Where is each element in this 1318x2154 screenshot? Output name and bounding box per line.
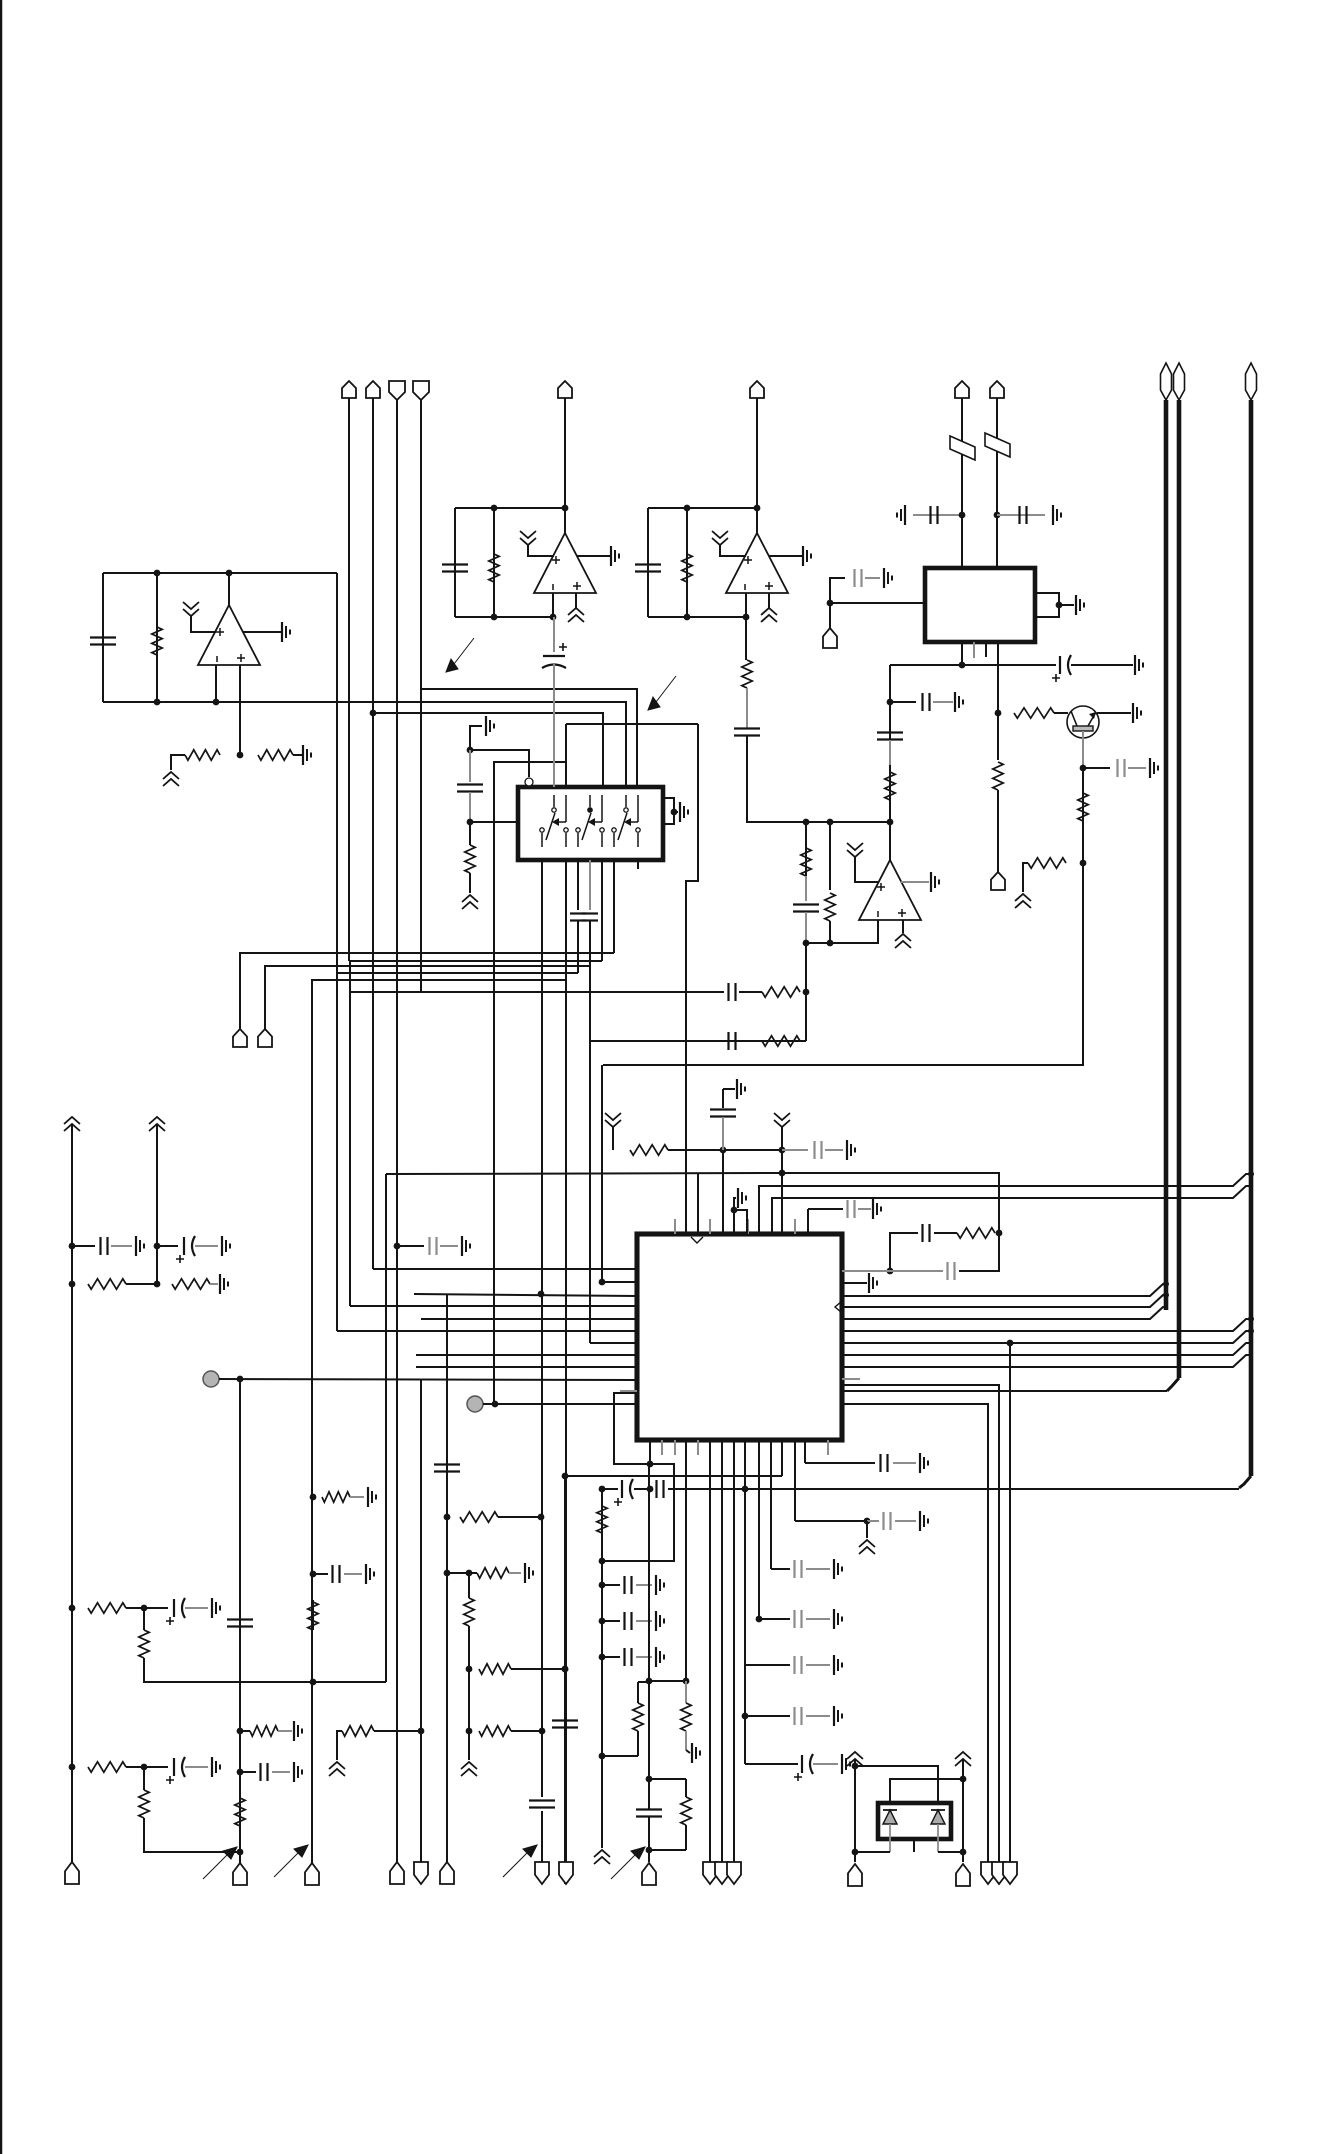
V+ supply arrow U1 [183, 602, 199, 616]
D1 top net [855, 1766, 938, 1803]
U2 supply wire [528, 545, 554, 556]
U7 bottom pin b3 [674, 1440, 676, 1455]
ground C38 [842, 1754, 850, 1774]
terminal J3 wire [396, 400, 398, 1862]
page left edge line [0, 0, 2, 2154]
U7 left pin wire col602 [602, 1065, 637, 1282]
resistor R4 [489, 554, 499, 582]
node D2a [960, 1776, 967, 1783]
node col542 a [539, 1728, 546, 1735]
R3 right wire [293, 754, 303, 756]
node bus3 ret a [742, 1486, 749, 1493]
capacitor C13 [457, 785, 483, 792]
node col602 f [599, 1618, 606, 1625]
supply arrow col602 [594, 1850, 610, 1864]
capacitor C19 [101, 1237, 108, 1255]
U6 pin cap wire p4 [589, 860, 591, 910]
bottom terminal BT12 [727, 1862, 741, 1884]
U7 pin1 mark [691, 1237, 703, 1243]
terminal J7 wire [961, 398, 963, 568]
node A2 [731, 1207, 738, 1214]
node CL2 [310, 1571, 317, 1578]
capacitor C27 [657, 1480, 664, 1498]
R24 leads [685, 1779, 687, 1797]
C48 gnd wire [440, 1245, 458, 1247]
bottom terminal BT13 [848, 1864, 862, 1886]
resistor R31 [322, 1492, 350, 1502]
R30 leads [239, 1798, 241, 1826]
capacitor C43 [261, 1763, 268, 1781]
C19 wire [72, 1245, 95, 1247]
diode pack box [878, 1803, 951, 1839]
capacitor C47 [529, 1801, 555, 1808]
bottom terminal BT17 [1003, 1862, 1017, 1884]
U4 gnd wire [1059, 604, 1074, 606]
R9 leads [997, 713, 999, 760]
node RC1 [996, 1230, 1003, 1237]
node R7 bottom [1080, 860, 1087, 867]
node col447 a [444, 1514, 451, 1521]
node col602 d [647, 1486, 654, 1493]
C26-C27 wire [634, 1488, 650, 1490]
V- supply arrow U1 [163, 772, 179, 786]
power bus B2 [1177, 400, 1182, 1378]
polarized capacitor C20 [176, 1236, 195, 1263]
col602 wire c [601, 1533, 603, 1756]
resistor R19 [630, 1145, 668, 1155]
capacitor C44 [333, 1565, 340, 1583]
U7 bottom pin b10 wire [770, 1440, 772, 1569]
node U3 out [754, 505, 761, 512]
bus terminal P1 [1161, 363, 1172, 400]
R31 gnd wire [350, 1496, 364, 1498]
annotation arrow 6 [648, 676, 676, 710]
capacitor C33 [884, 1512, 891, 1530]
C8 wire [1083, 767, 1110, 769]
resistor R6 [1014, 708, 1054, 718]
col806 wire [805, 943, 807, 1041]
U7 pin wire r3 [842, 1284, 1166, 1296]
resistor R27 [88, 1762, 126, 1772]
power bus B2 bend [1167, 1378, 1179, 1391]
annotation arrow 1 [203, 1847, 237, 1879]
wire col337 to IC [337, 1330, 637, 1332]
R2 left wire [171, 755, 185, 770]
U7 top pin h wire [722, 1150, 724, 1234]
C11 wire [890, 701, 916, 703]
R13 bottom wire [829, 921, 831, 943]
U4 input wire [830, 602, 925, 604]
resistor R5 leads [686, 508, 688, 617]
node U2 top [491, 505, 498, 512]
resistor R1 [152, 627, 162, 655]
U6 pin wire p5 [601, 860, 603, 961]
capacitor C29 [625, 1612, 632, 1630]
capacitor C21 [710, 1110, 736, 1117]
TP2 wire [483, 1403, 637, 1405]
node C41b [237, 1769, 244, 1776]
node RC2 [887, 1268, 894, 1275]
capacitor C6 [855, 569, 862, 587]
node BL5 [141, 1764, 148, 1771]
R10-C9 wire [746, 688, 748, 728]
C40 gnd wire [185, 1766, 208, 1768]
U7 top pin f [794, 1219, 796, 1234]
col602 tail wire [601, 1756, 603, 1848]
bottom terminal BT3 [305, 1863, 319, 1885]
resistor R10 [742, 660, 752, 688]
terminal J8 wire [996, 398, 998, 568]
annotation arrow 4 [611, 1847, 645, 1879]
rail1 wire [71, 1125, 73, 1863]
T net top [649, 1680, 686, 1682]
capacitor C37 [795, 1707, 802, 1725]
C7 gnd wire [1071, 664, 1133, 666]
U4 pin wire D [997, 642, 999, 713]
capacitor C23 [848, 1200, 855, 1218]
C21 gnd hook [723, 1088, 735, 1090]
ground C8 [1150, 758, 1158, 778]
col649 wire b [648, 1489, 650, 1681]
resistor R5 [682, 554, 692, 582]
U6 enable wire [470, 750, 529, 777]
U7 bottom pin b8 wire [733, 1440, 735, 1862]
polarized cap C14 top wire [553, 617, 555, 652]
C20 gnd wire [195, 1245, 218, 1247]
bt1 wire [71, 1850, 73, 1862]
capacitor C10 [877, 733, 903, 740]
col564 wire [564, 1476, 566, 1884]
R19 wire right [668, 1149, 723, 1151]
capacitor C15 [570, 914, 586, 921]
U3 inv wire [745, 593, 747, 617]
power bus B3 bend [1239, 1476, 1251, 1488]
A2 hook [734, 1210, 747, 1234]
U1 ground wire [243, 631, 282, 633]
node rail2 a [154, 1243, 161, 1250]
node col602 b [599, 1558, 606, 1565]
C29 gnd wire [636, 1620, 652, 1622]
bottom terminal BT14 [956, 1864, 970, 1886]
terminal J2 wire [372, 398, 374, 1269]
wire Q1 net down [603, 863, 1083, 1065]
R36 bottom wire [468, 1626, 470, 1669]
R22 top link [638, 1681, 649, 1683]
supply arrow col469 [461, 1762, 477, 1776]
D left wire [854, 1760, 856, 1862]
resistor R13 [825, 893, 835, 921]
R9 bottom wire [997, 790, 999, 872]
node Vout [959, 662, 966, 669]
V- supply arrow U5 [895, 934, 911, 948]
U7 pin wire r8 [842, 1343, 1251, 1355]
C23 gnd wire [858, 1208, 871, 1210]
node col890 [887, 699, 894, 706]
U7 right pin gnd wire [841, 1282, 843, 1284]
terminal J3 [389, 381, 405, 400]
node U4 gnd [1056, 602, 1063, 609]
node T2 [683, 1678, 690, 1685]
V+ supply arrow U2 [520, 531, 536, 545]
node U2 out [562, 505, 569, 512]
wire stair5 [312, 980, 566, 1864]
node bus tap2 [1163, 1292, 1169, 1298]
C13 to U6 wire [470, 821, 518, 823]
node T3 [646, 1776, 653, 1783]
node U1 bottom left [154, 699, 161, 706]
wire col890 up [889, 665, 891, 822]
C35 row net [759, 1618, 790, 1620]
ground U3 [803, 546, 811, 566]
ground C44 [366, 1564, 374, 1584]
node col602 ic [599, 1279, 606, 1286]
node U3 top [684, 505, 691, 512]
U7 bottom pin b13 wire [804, 1440, 806, 1463]
capacitor C31 [636, 1810, 662, 1817]
U1 feedback loop top wire [103, 572, 337, 574]
supply arrow R33 [329, 1762, 345, 1776]
wire col350 to IC [350, 1305, 637, 1307]
U5 noninv wire [902, 920, 904, 933]
ground C6 [884, 568, 892, 588]
A3 wire [781, 1127, 783, 1234]
terminal J5 wire [564, 398, 566, 508]
node Vin1 [959, 512, 966, 519]
ground C34 [834, 1559, 842, 1579]
ground A4 [869, 1273, 877, 1293]
resistor R21 [597, 1506, 607, 1533]
switch S1 [540, 795, 568, 847]
node jog a [647, 1461, 654, 1468]
ground C48 [462, 1236, 470, 1256]
node BL6 [237, 1849, 244, 1856]
C25 wire [890, 1270, 943, 1272]
resistor R4 leads [493, 508, 495, 617]
C13 top wire [469, 750, 471, 782]
U3 loop left wire [647, 508, 649, 617]
ladder1 chev wire [866, 1521, 868, 1538]
node col541 r34 [538, 1514, 545, 1521]
ground C7 [1135, 655, 1143, 675]
bottom terminal BT8 [559, 1862, 573, 1884]
U3 loop bottom wire [648, 616, 746, 618]
bottom terminal BT15 [981, 1862, 995, 1884]
switch S3 [612, 795, 640, 847]
ground C40 [212, 1757, 220, 1777]
col421 wire [420, 1379, 422, 1863]
U3 noninv wire [768, 593, 770, 608]
ground C4 [897, 505, 905, 525]
R32 leads [312, 1600, 314, 1630]
resistor R22 [633, 1703, 643, 1731]
terminal J9 wire [829, 603, 831, 628]
resistor R9 [993, 762, 1003, 790]
U6 en gnd wire [470, 726, 482, 750]
ground R31 [368, 1487, 376, 1507]
col240 wire [239, 1379, 241, 1864]
analog switch U6 [518, 787, 663, 860]
U5 ground wire [901, 881, 929, 883]
R28 top wire [143, 1767, 145, 1790]
C15 wire down [577, 921, 579, 973]
C38 gnd wire [813, 1763, 838, 1765]
capacitor C46 [552, 1721, 578, 1728]
resistor R17 [88, 1279, 126, 1289]
RC2 stub [842, 1270, 890, 1272]
ground U5 [931, 872, 939, 892]
R13 leads [829, 822, 831, 890]
wire S1b riser [565, 724, 567, 787]
R12-C12 wire [805, 876, 807, 901]
resistor R38 [479, 1726, 511, 1736]
capacitor C9 [734, 729, 760, 736]
V- supply arrow U3 [761, 608, 777, 622]
test point TP1 [203, 1371, 219, 1387]
U1 output wire [228, 573, 230, 605]
terminal J11 [233, 1029, 247, 1047]
resistor R16 [762, 1036, 800, 1046]
resistor R34 [460, 1512, 498, 1522]
ground C32 [920, 1453, 928, 1473]
capacitor C16 [582, 914, 598, 921]
U2 inv wire [552, 593, 554, 617]
wire stair4 [337, 972, 578, 974]
node ladder2 [756, 1616, 763, 1623]
C32 gnd wire [893, 1462, 916, 1464]
ground C11 [955, 692, 963, 712]
node col447 b [444, 1570, 451, 1577]
terminal J2 [366, 381, 380, 398]
node bus tap3 [1248, 1316, 1254, 1322]
resistor R18 [172, 1279, 210, 1289]
capacitor C4 [931, 506, 938, 524]
C30 gnd wire [636, 1656, 652, 1658]
wire col386 [385, 1174, 387, 1682]
T network top wire [602, 1755, 638, 1757]
U3 chain wire [747, 736, 890, 822]
U6 pin wire p6 [613, 860, 615, 953]
supply arrow ladder [859, 1540, 875, 1554]
U7 pin wire r2 [772, 1186, 1251, 1234]
resistor R30 [235, 1798, 245, 1826]
node rail1 b [69, 1281, 76, 1288]
node U1 inv [213, 699, 220, 706]
U5 output wire [889, 822, 891, 860]
U2 ground wire [577, 555, 611, 557]
wire stair3 [265, 966, 590, 1029]
wire U1 net to S3a [337, 702, 626, 787]
bottom terminal BT5 [414, 1862, 428, 1884]
polarized capacitor C14 [542, 643, 567, 668]
wire S1b to IC [566, 723, 698, 725]
fuse F2 [985, 433, 1010, 457]
ground C22 [847, 1140, 855, 1160]
transistor Q1 [1067, 706, 1099, 738]
node T1 [646, 1678, 653, 1685]
col469 tail wire [468, 1731, 470, 1760]
U7 bottom pin b5 [697, 1440, 699, 1455]
C21 top wire [722, 1089, 724, 1108]
R18 gnd wire [210, 1283, 218, 1285]
node col602 h [599, 1753, 606, 1760]
C36 row net [745, 1664, 790, 1666]
U5 supply wire [855, 857, 879, 882]
U6 enable bubble [525, 778, 533, 786]
C48 wire [397, 1245, 424, 1247]
capacitor C17 [729, 983, 736, 1001]
node BL2 [141, 1605, 148, 1612]
resistor R7 [1078, 793, 1088, 821]
ground C35 [834, 1609, 842, 1629]
C20 wire [157, 1245, 178, 1247]
U7 left pin wire y1355 [416, 1354, 637, 1356]
C33 gnd wire [895, 1520, 916, 1522]
node C13 [467, 819, 474, 826]
node col602 g [599, 1654, 606, 1661]
terminal J12 [258, 1029, 272, 1047]
col1010 wire [1009, 1343, 1011, 1862]
C34 gnd wire [806, 1568, 830, 1570]
node X2 [827, 819, 834, 826]
node CL1 [310, 1494, 317, 1501]
C43 wire [240, 1771, 256, 1773]
supply arrow rail1 [64, 1117, 80, 1131]
resistor R8 [1028, 858, 1066, 868]
bottom terminal BT10 [703, 1862, 717, 1884]
C36 gnd wire [806, 1664, 830, 1666]
TP1 wire [219, 1379, 637, 1380]
bus terminal P3 [1246, 363, 1257, 400]
T bottom net [649, 1849, 686, 1851]
U7 top pin i wire [733, 1210, 735, 1234]
U7 bottom pin b15 wire [827, 1440, 829, 1455]
supply arrow rail2 [149, 1117, 165, 1131]
wire y1174 net [386, 1173, 782, 1174]
R38 wire right [511, 1730, 542, 1732]
node TP2 [492, 1401, 499, 1408]
A1 wire right [723, 1149, 782, 1151]
terminal J1 wire [348, 398, 350, 961]
R14 bottom wire [469, 873, 471, 893]
C24 wire left [890, 1233, 918, 1271]
rail2 wire [156, 1125, 158, 1284]
resistor R11 [885, 772, 895, 800]
bottom terminal BT7 [535, 1862, 549, 1884]
R28 bottom net [144, 1818, 240, 1852]
polarized capacitor C7 [1052, 655, 1071, 682]
node col541 top [538, 1291, 545, 1298]
U7 top pin g [807, 1209, 809, 1234]
U7 pin wire r1 [759, 1174, 1251, 1234]
node bus tap4 [1248, 1328, 1254, 1334]
C44 gnd wire [344, 1573, 362, 1575]
ground C43 [294, 1762, 302, 1782]
C22 gnd wire [825, 1149, 843, 1151]
R23 top wire [685, 1681, 687, 1703]
node X1 [803, 819, 810, 826]
capacitor C18 [729, 1032, 736, 1050]
U7 top pin b [709, 1219, 711, 1234]
U1 supply wire [191, 616, 216, 632]
ground R35 [525, 1563, 533, 1583]
DC-DC converter U4 [925, 568, 1035, 642]
C6 wire [830, 578, 845, 603]
U7 right pin stub r10 [842, 1378, 860, 1380]
U7 pin wire r6 [842, 1319, 1251, 1331]
C26 wire [602, 1488, 618, 1490]
node col1010 tap [1007, 1340, 1014, 1347]
terminal J4 wire [420, 400, 422, 992]
